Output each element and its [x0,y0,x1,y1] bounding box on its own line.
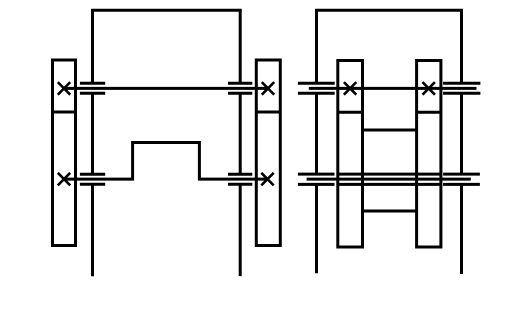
bearing X A2 upper [262,82,274,95]
lower shaft upper rail [338,173,441,176]
bearing block A1 (left narrow rectangle, left assembly) [53,60,76,246]
upper shaft (left assembly) [64,87,268,90]
gear block B2 divider [417,111,441,114]
bearing X A1 upper [58,82,70,95]
bearing X A2 lower [261,173,273,186]
coupling plates upper shaft left (right assembly) [298,83,335,93]
coupling plates upper shaft right (right assembly) [443,83,480,93]
bearing block A2 divider [256,111,280,114]
coupling plates lower shaft left (right assembly) [298,174,335,184]
lower bridge between gear blocks [363,210,417,213]
coupling plates lower-right [228,174,252,184]
gear block B1 (left narrow rectangle, right assembly) [338,61,363,248]
bearing block A2 (right narrow rectangle, left assembly) [256,60,280,246]
coupling plates lower shaft right (right assembly) [443,174,480,184]
bearing block A1 divider [53,111,76,114]
upper shaft (right assembly) [309,87,477,90]
housing (right assembly open box) [315,10,463,274]
lower shaft (right assembly) [307,178,471,181]
housing (left assembly open box) [91,10,242,276]
gear block B1 divider [338,111,363,114]
bearing X B1 [344,82,356,95]
coupling plates upper-right [228,83,252,93]
upper bridge between gear blocks [363,129,417,132]
gear block B2 (right narrow rectangle, right assembly) [417,61,441,248]
coupling plates upper-left [80,83,105,93]
bearing X A1 lower [58,173,70,186]
bearing X B2 [423,82,435,95]
lower shaft lower rail [338,183,441,186]
coupling plates lower-left [80,174,105,184]
lower shaft with raised step (left assembly) [64,143,268,180]
